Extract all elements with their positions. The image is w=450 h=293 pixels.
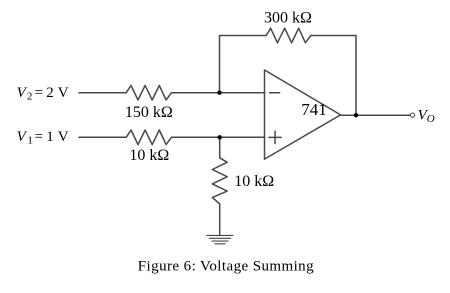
label: 150 kOhm value xyxy=(125,104,173,121)
label: 300 kOhm value xyxy=(264,9,312,26)
op-amp minus input marker xyxy=(270,92,280,94)
wire: V2 source lead xyxy=(79,92,126,94)
svg-text:10 kΩ: 10 kΩ xyxy=(129,147,169,164)
op-amp 741 triangle xyxy=(265,70,341,159)
svg-text:Figure 6: Voltage Summing: Figure 6: Voltage Summing xyxy=(138,258,314,274)
node junction dot at output xyxy=(354,113,358,117)
node junction dot at non-inverting input xyxy=(218,135,222,139)
label: series 10 kOhm value xyxy=(129,147,169,164)
label: source V1 = 1 V xyxy=(17,129,69,147)
label: shunt 10 kOhm value xyxy=(234,173,274,190)
label: output VO xyxy=(418,107,435,125)
wire: 10k to non-inverting input of op-amp xyxy=(172,136,265,138)
wire: non-inverting node down to shunt resistor xyxy=(219,137,221,158)
svg-text:741: 741 xyxy=(301,100,327,119)
svg-text:150 kΩ: 150 kΩ xyxy=(125,104,173,121)
resistor 300k zigzag xyxy=(266,28,311,43)
output terminal open circle xyxy=(411,113,415,117)
op-amp plus input marker xyxy=(269,131,281,143)
wire: top feedback right segment xyxy=(311,35,356,37)
ground xyxy=(207,235,233,243)
resistor 150k zigzag xyxy=(126,85,171,100)
svg-text:VO: VO xyxy=(418,107,435,125)
svg-text:300 kΩ: 300 kΩ xyxy=(264,9,312,26)
svg-text:V2=2V: V2=2V xyxy=(17,85,69,103)
wire: feedback left vertical drop to inverting node xyxy=(219,36,221,93)
caption: Figure 6: Voltage Summing xyxy=(138,258,314,274)
node junction dot at inverting input xyxy=(217,91,221,95)
wire: shunt resistor to ground xyxy=(219,204,221,236)
svg-text:V1=1V: V1=1V xyxy=(17,129,69,147)
resistor 10k (shunt) vertical zigzag xyxy=(212,158,227,204)
wire: V1 source lead xyxy=(79,136,126,138)
wire: feedback right vertical drop to output node xyxy=(355,36,357,116)
label: source V2 = 2 V xyxy=(17,85,69,103)
label: op-amp part number 741 xyxy=(301,100,327,119)
wire: op-amp output to terminal xyxy=(341,114,411,116)
svg-text:10 kΩ: 10 kΩ xyxy=(234,173,274,190)
wire: 150k to inverting input of op-amp xyxy=(172,92,265,94)
wire: top feedback left segment xyxy=(220,35,267,37)
resistor 10k (series) zigzag xyxy=(126,130,171,145)
